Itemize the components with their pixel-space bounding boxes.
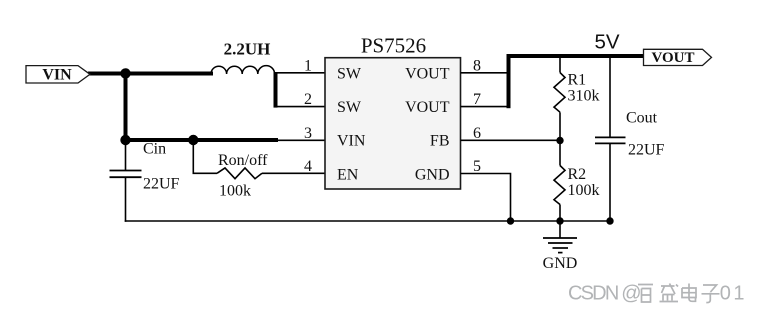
resistor R1 bbox=[554, 56, 600, 140]
wire ground rail bbox=[125, 220, 610, 222]
svg-text:VIN: VIN bbox=[337, 132, 366, 149]
svg-text:GND: GND bbox=[415, 166, 450, 183]
capacitor Cin bbox=[110, 140, 180, 222]
glyph sheng bbox=[660, 284, 679, 302]
node Cout/ground junction bbox=[606, 217, 613, 224]
wire 5V bus vertical (thick) bbox=[507, 56, 511, 108]
svg-text:5: 5 bbox=[473, 158, 481, 175]
svg-text:R1: R1 bbox=[568, 72, 587, 89]
glyph dian bbox=[682, 284, 696, 302]
svg-text:Cin: Cin bbox=[143, 141, 166, 158]
wire VIN flag to inductor (thick) bbox=[88, 72, 213, 76]
wire VIN bus horizontal to pin 3 (thick) bbox=[126, 138, 279, 142]
svg-text:6: 6 bbox=[473, 125, 481, 142]
svg-text:4: 4 bbox=[304, 158, 312, 175]
watermark CSDN bbox=[568, 283, 747, 305]
svg-text:01: 01 bbox=[720, 283, 747, 305]
svg-text:22UF: 22UF bbox=[143, 176, 180, 193]
svg-text:SW: SW bbox=[337, 65, 362, 82]
svg-text:CSDN @: CSDN @ bbox=[568, 283, 640, 305]
svg-text:R2: R2 bbox=[568, 166, 587, 183]
svg-text:SW: SW bbox=[337, 99, 362, 116]
ground bbox=[543, 221, 578, 272]
svg-text:8: 8 bbox=[473, 58, 481, 75]
node VIN top junction bbox=[120, 68, 130, 78]
node R2/ground junction bbox=[556, 217, 563, 224]
svg-text:VOUT: VOUT bbox=[405, 99, 450, 116]
VOUT output flag bbox=[644, 49, 712, 66]
svg-text:GND: GND bbox=[543, 255, 578, 272]
svg-text:3: 3 bbox=[304, 125, 312, 142]
svg-text:Cout: Cout bbox=[626, 110, 658, 127]
glyph zi bbox=[702, 285, 720, 303]
VIN input flag bbox=[26, 66, 90, 84]
wire pin 4 EN lead bbox=[193, 140, 217, 173]
svg-text:VOUT: VOUT bbox=[651, 50, 694, 66]
node Ron/off branch junction bbox=[188, 135, 198, 145]
svg-text:2.2UH: 2.2UH bbox=[224, 40, 271, 59]
svg-text:PS7526: PS7526 bbox=[361, 34, 426, 58]
svg-text:22UF: 22UF bbox=[628, 142, 665, 159]
svg-text:100k: 100k bbox=[219, 183, 251, 200]
svg-text:100k: 100k bbox=[568, 182, 600, 199]
wire pin 3 VIN (thin) bbox=[278, 139, 325, 141]
svg-text:Ron/off: Ron/off bbox=[218, 152, 268, 169]
svg-text:7: 7 bbox=[473, 91, 481, 108]
wire 5V rail (thick) bbox=[507, 54, 645, 58]
svg-text:5V: 5V bbox=[595, 30, 620, 53]
wire pin 2 SW bbox=[276, 106, 326, 108]
capacitor Cout bbox=[595, 56, 665, 221]
inductor L1 bbox=[211, 40, 275, 75]
svg-text:VIN: VIN bbox=[42, 67, 72, 84]
svg-text:310k: 310k bbox=[568, 88, 600, 105]
wire pin 7 VOUT bbox=[461, 106, 509, 108]
resistor R2 bbox=[554, 141, 600, 222]
node VIN/Cin junction bbox=[120, 135, 130, 145]
IC U1 PS7526 bbox=[325, 34, 461, 190]
node FB junction bbox=[556, 137, 563, 144]
wire pin 1 SW bbox=[276, 72, 326, 74]
wire pin 6 FB bbox=[461, 139, 561, 141]
svg-text:EN: EN bbox=[337, 166, 359, 183]
svg-text:1: 1 bbox=[304, 58, 312, 75]
wire inductor to SW pins (thick vertical) bbox=[274, 72, 278, 108]
wire pin 8 VOUT bbox=[461, 72, 509, 74]
wire VIN bus vertical (thick) bbox=[124, 74, 128, 141]
svg-text:2: 2 bbox=[304, 91, 312, 108]
svg-text:VOUT: VOUT bbox=[405, 65, 450, 82]
svg-text:FB: FB bbox=[430, 132, 450, 149]
node pin5/ground junction bbox=[507, 217, 514, 224]
glyph bai bbox=[638, 285, 653, 303]
resistor Ron/off bbox=[217, 152, 268, 200]
wire pin 5 GND bbox=[461, 174, 511, 222]
wire Ron/off to pin 4 bbox=[262, 172, 325, 174]
